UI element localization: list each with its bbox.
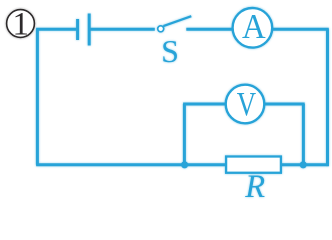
ammeter A body: [233, 8, 273, 48]
voltmeter V letter: [237, 85, 256, 123]
battery B1 short plate: [76, 19, 79, 40]
label circled 1: [7, 7, 35, 43]
svg-text:S: S: [161, 33, 179, 69]
node junction left: [181, 161, 188, 168]
battery B1 long plate: [88, 14, 91, 46]
svg-text:V: V: [237, 85, 256, 123]
switch S pivot: [158, 26, 164, 32]
svg-text:R: R: [244, 169, 265, 200]
wire bottom left segment: [36, 163, 225, 166]
wire voltmeter loop right vertical: [302, 104, 305, 165]
wire left side: [36, 29, 39, 165]
svg-text:A: A: [242, 8, 266, 46]
wire right side: [326, 29, 329, 166]
voltmeter V body: [226, 85, 265, 124]
wire top: node to battery: [36, 28, 76, 31]
ammeter A letter: [242, 8, 266, 46]
label S: [161, 33, 179, 69]
svg-text:1: 1: [13, 7, 30, 43]
label R: [244, 169, 265, 205]
wire voltmeter loop left vertical: [183, 104, 186, 165]
wire battery to switch: [91, 28, 155, 31]
wire voltmeter loop top right: [264, 103, 305, 106]
wire switch to ammeter: [186, 28, 233, 31]
wire bottom right segment: [281, 163, 329, 166]
wire ammeter to corner: [272, 28, 329, 31]
node junction right: [300, 161, 307, 168]
wire voltmeter loop top left: [183, 103, 226, 106]
switch S lever: [163, 16, 191, 26]
resistor R body: [226, 157, 281, 173]
